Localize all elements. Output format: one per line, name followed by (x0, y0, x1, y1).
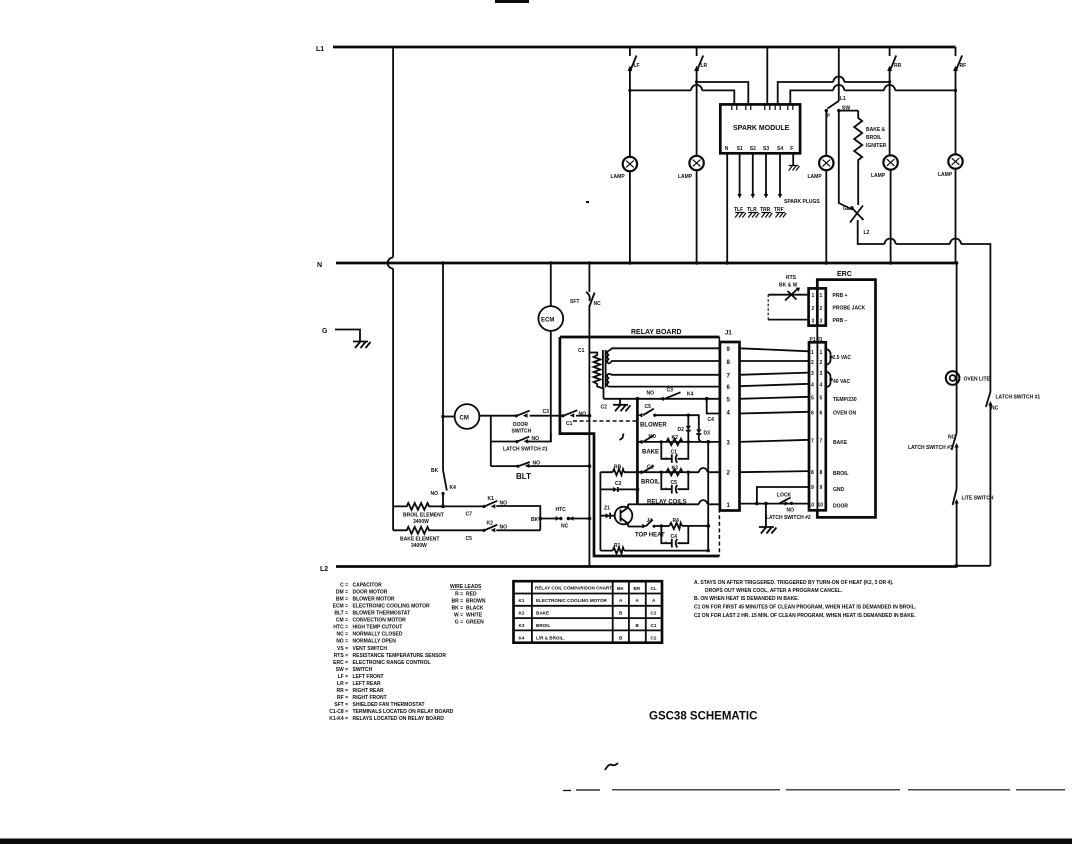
svg-text:N: N (317, 262, 322, 269)
svg-text:C4: C4 (708, 417, 715, 423)
switch RR (887, 47, 901, 156)
svg-text:3: 3 (812, 319, 815, 325)
svg-text:RIGHT FRONT: RIGHT FRONT (353, 695, 387, 701)
switch K4 contact (top heat) (635, 518, 665, 539)
wire relay bus vertical (636, 399, 639, 505)
scan speck near module (586, 201, 589, 203)
svg-text:HTC =: HTC = (333, 625, 348, 631)
wire ECM drop from N (550, 263, 552, 306)
svg-text:+: + (665, 541, 668, 547)
wire HTC line (531, 517, 557, 523)
svg-text:RF =: RF = (337, 695, 348, 701)
svg-text:BR: BR (634, 586, 641, 591)
igniter label (866, 127, 887, 149)
lamp RR (883, 155, 897, 169)
svg-text:2: 2 (812, 306, 815, 312)
svg-text:5: 5 (811, 396, 814, 402)
sensor RTS (779, 275, 800, 301)
svg-text:C1: C1 (566, 421, 573, 427)
ground spark plug TRR (762, 213, 773, 218)
spark module bottom pin labels (725, 146, 794, 152)
svg-text:RR =: RR = (336, 688, 348, 694)
wire spark output S1 (739, 153, 741, 194)
wire P lamp to N (825, 170, 827, 262)
svg-text:BK: BK (431, 468, 439, 474)
wire blower contact to diodes (655, 415, 699, 429)
svg-text:TERMINALS LOCATED ON RELAY BOA: TERMINALS LOCATED ON RELAY BOARD (353, 709, 454, 715)
svg-text:LATCH SWITCH #3: LATCH SWITCH #3 (908, 445, 953, 451)
switch lock (latch #2) (766, 493, 811, 522)
svg-text:L/R & BROIL.: L/R & BROIL. (536, 636, 565, 641)
svg-text:K4: K4 (519, 636, 525, 641)
svg-text:BK: BK (531, 517, 539, 523)
svg-text:C4: C4 (671, 534, 678, 540)
connector J1 (720, 331, 740, 511)
svg-text:C5: C5 (466, 536, 473, 542)
wire broil to K1 contact (443, 505, 484, 507)
svg-text:1: 1 (811, 350, 814, 356)
wire collector to relay coils row (628, 503, 637, 505)
svg-text:BROIL ELEMENT: BROIL ELEMENT (403, 513, 444, 519)
svg-text:SFT =: SFT = (334, 702, 348, 708)
svg-text:BLACK: BLACK (466, 606, 484, 612)
svg-text:ELECTRONIC COOLING MOTOR: ELECTRONIC COOLING MOTOR (353, 604, 431, 610)
svg-text:S2: S2 (750, 146, 756, 152)
svg-text:C1-C8 =: C1-C8 = (329, 709, 348, 715)
svg-text:S1: S1 (737, 146, 743, 152)
svg-text:2.5 VAC: 2.5 VAC (833, 355, 852, 361)
ERC box (817, 271, 875, 517)
svg-text:BK & W: BK & W (779, 283, 798, 289)
scan artifact signature (605, 763, 618, 770)
svg-text:CAPACITOR: CAPACITOR (353, 583, 383, 589)
svg-text:C1: C1 (671, 450, 678, 456)
ground spark plug TRF (776, 213, 787, 218)
wire spark output S3 (765, 153, 767, 194)
svg-text:BAKE: BAKE (642, 450, 659, 456)
thermostat SFT (570, 292, 601, 307)
wire SW terminal down (839, 111, 852, 210)
svg-text:PROBE JACK: PROBE JACK (833, 306, 866, 312)
svg-text:BM =: BM = (336, 597, 348, 603)
capacitor C5 (broil) (660, 471, 690, 494)
relay contact K2 (bake) (482, 521, 507, 533)
relay board right border dashed (718, 337, 720, 556)
motor ECM (538, 306, 563, 331)
svg-text:BAKE ELEMENT: BAKE ELEMENT (400, 537, 439, 543)
relay contact blower (638, 404, 668, 429)
svg-text:LATCH SWITCH #1: LATCH SWITCH #1 (503, 447, 548, 453)
svg-text:LATCH SWITCH #1: LATCH SWITCH #1 (996, 395, 1041, 401)
svg-text:G: G (322, 328, 328, 335)
svg-text:9: 9 (811, 485, 814, 491)
svg-text:J1: J1 (725, 331, 732, 337)
svg-text:LAMP: LAMP (611, 174, 626, 180)
svg-text:LAMP: LAMP (871, 173, 886, 179)
svg-text:1: 1 (820, 293, 823, 299)
svg-text:K4: K4 (450, 485, 457, 491)
svg-text:40 VAC: 40 VAC (833, 379, 851, 385)
svg-text:A: A (652, 598, 656, 603)
svg-text:RIGHT REAR: RIGHT REAR (353, 688, 385, 694)
spark module top pin marks (732, 104, 793, 110)
svg-text:LITE SWITCH: LITE SWITCH (962, 496, 994, 502)
wire emitter row to TOP HEAT switch (628, 526, 644, 528)
capacitor C1 (bake) (660, 440, 690, 463)
resistor broil igniter (854, 111, 862, 205)
wire leads legend (450, 584, 486, 626)
svg-text:5: 5 (727, 398, 731, 404)
svg-text:NC: NC (991, 406, 999, 412)
svg-text:K1-K4 =: K1-K4 = (329, 716, 348, 722)
svg-text:B: B (619, 611, 623, 616)
svg-text:L1: L1 (840, 96, 846, 102)
svg-text:SWITCH: SWITCH (353, 667, 373, 673)
svg-text:6: 6 (727, 385, 731, 391)
svg-text:W =: W = (454, 613, 463, 619)
svg-text:BLT: BLT (516, 472, 531, 481)
wire contact to SFT wire (576, 415, 589, 417)
wire L1 direct to module pin3 (766, 47, 768, 104)
resistor R1 (613, 543, 625, 554)
lamp RF (948, 154, 962, 168)
connector P1/J1 (10 pin) (809, 337, 826, 510)
svg-text:CONVECTION MOTOR: CONVECTION MOTOR (353, 618, 407, 624)
wire harness rows (740, 348, 810, 472)
relay contact C on door line (561, 410, 586, 417)
svg-text:3: 3 (820, 371, 823, 377)
scan artifact top dash (495, 0, 529, 3)
relay contact K1 (broil) (482, 496, 507, 509)
svg-text:C =: C = (340, 583, 348, 589)
svg-text:BROIL: BROIL (536, 623, 550, 628)
svg-text:ERC: ERC (837, 271, 852, 278)
svg-text:A: A (619, 598, 623, 603)
svg-text:NO: NO (431, 491, 439, 497)
wire to R4 (654, 525, 669, 527)
wire module pinF to ground (792, 153, 794, 165)
svg-text:HIGH TEMP CUTOUT: HIGH TEMP CUTOUT (353, 625, 403, 631)
svg-text:NC: NC (561, 524, 569, 530)
resistor RB (613, 465, 625, 476)
relay contact K4 on top line (647, 388, 694, 402)
wire ECM down to latch line (550, 331, 552, 442)
ground on lock row (765, 504, 767, 527)
svg-text:C2: C2 (615, 481, 622, 487)
svg-text:VENT SWITCH: VENT SWITCH (353, 646, 388, 652)
svg-text:K2: K2 (487, 521, 494, 527)
svg-text:DOOR: DOOR (513, 422, 528, 428)
relay coil K3 (667, 466, 683, 476)
scan artifact thin line (563, 789, 1065, 792)
svg-text:DOOR: DOOR (833, 504, 848, 510)
svg-text:VS =: VS = (337, 646, 348, 652)
svg-text:LR =: LR = (337, 681, 348, 687)
svg-text:GREEN: GREEN (466, 620, 484, 626)
wire CM to door switch line (479, 415, 516, 417)
svg-text:BLOWER: BLOWER (640, 423, 667, 429)
svg-text:3: 3 (811, 371, 814, 377)
hop L2 over RF lamp wire (950, 239, 961, 245)
svg-text:RELAY BOARD: RELAY BOARD (631, 329, 682, 336)
svg-text:NO =: NO = (336, 639, 348, 645)
svg-text:K3: K3 (519, 623, 525, 628)
capacitor C4 (top heat) (661, 526, 688, 548)
svg-text:NO: NO (787, 508, 795, 514)
svg-text:G =: G = (455, 620, 463, 626)
junction dots on spark feed branches (628, 80, 957, 92)
wire SW to resistor top (839, 110, 858, 112)
ground spark plug TLR (748, 213, 759, 218)
svg-text:RF: RF (960, 63, 967, 69)
switch latch #3 (908, 433, 959, 489)
svg-text:2: 2 (811, 360, 814, 366)
svg-text:SWITCH: SWITCH (512, 429, 532, 435)
lamp LR (689, 156, 703, 170)
scan artifact bottom bar (0, 839, 1072, 845)
svg-text:RESISTANCE TEMPERATURE SENSOR: RESISTANCE TEMPERATURE SENSOR (353, 653, 447, 659)
svg-text:BLOWER MOTOR: BLOWER MOTOR (353, 597, 396, 603)
svg-text:Z1: Z1 (604, 506, 610, 512)
hop relay coils row (699, 500, 707, 504)
wire BLT to SFT wire (529, 465, 590, 467)
hop L2 over RR lamp wire (885, 239, 896, 245)
lamp oven lite (946, 371, 991, 385)
svg-text:RED: RED (466, 592, 477, 598)
wire bake to K2 contact (443, 529, 484, 531)
svg-text:ELECTRONIC RANGE CONTROL: ELECTRONIC RANGE CONTROL (353, 660, 431, 666)
wire spark output S4 (779, 153, 781, 194)
svg-text:C7: C7 (466, 512, 473, 518)
wire RR lamp to N (890, 170, 892, 262)
svg-text:A. STAYS ON AFTER TRIGGERED. T: A. STAYS ON AFTER TRIGGERED. TRIGGERED B… (694, 580, 894, 586)
svg-text:C1 ON FOR FIRST 45 MINUTES OF: C1 ON FOR FIRST 45 MINUTES OF CLEAN PROG… (694, 605, 917, 611)
svg-text:PRB −: PRB − (833, 318, 848, 324)
resistor bake element (393, 527, 443, 534)
svg-text:C2: C2 (601, 405, 608, 411)
svg-text:NORMALLY OPEN: NORMALLY OPEN (353, 639, 397, 645)
wire probe loop (768, 295, 808, 320)
switch RF (953, 47, 966, 155)
wire dashed C1 to relay board bus (573, 420, 637, 422)
svg-text:LF: LF (634, 63, 640, 69)
transformer T1 core (603, 350, 606, 388)
switch door (512, 411, 532, 435)
svg-text:C1: C1 (651, 623, 657, 628)
ground spark plug TLF (735, 213, 746, 218)
wire spark output S2 (752, 153, 754, 194)
svg-text:C1: C1 (578, 348, 585, 354)
switch latch #1 (503, 436, 548, 453)
svg-text:SHIELDED FAN THERMOSTAT: SHIELDED FAN THERMOSTAT (353, 702, 425, 708)
wire BLT line (491, 465, 518, 467)
svg-text:NC: NC (594, 301, 602, 307)
svg-text:SPARK PLUGS: SPARK PLUGS (784, 199, 820, 205)
svg-text:DROPS OUT WHEN COOL, AFTER A P: DROPS OUT WHEN COOL, AFTER A PROGRAM CAN… (705, 588, 843, 594)
diode D2 (678, 426, 691, 442)
wire latch line vertical from CM line (490, 416, 492, 466)
svg-text:WHITE: WHITE (466, 613, 483, 619)
svg-text:C3: C3 (667, 388, 674, 394)
svg-text:NO: NO (647, 391, 655, 397)
wire L1 top rail (333, 46, 956, 49)
svg-text:ERC =: ERC = (333, 660, 348, 666)
svg-text:GSC38 SCHEMATIC: GSC38 SCHEMATIC (649, 711, 757, 723)
wire LF lamp to N (629, 171, 631, 262)
wire gnd row to ERC pin9 (757, 487, 809, 504)
wire P terminal to lamp (825, 111, 827, 156)
svg-text:3400W: 3400W (411, 543, 427, 549)
svg-text:ECM: ECM (541, 318, 554, 324)
svg-text:4: 4 (820, 383, 823, 389)
probe labels (833, 293, 866, 324)
relay coil comparison table (514, 581, 663, 643)
svg-text:3: 3 (727, 441, 731, 447)
svg-text:BAKE &: BAKE & (866, 127, 886, 133)
relay coil K2 (667, 435, 683, 445)
svg-text:BROIL: BROIL (833, 471, 849, 477)
svg-text:6: 6 (811, 411, 814, 417)
svg-text:8: 8 (820, 470, 823, 476)
wire bake relay row (637, 441, 720, 443)
bracket 40VAC (826, 372, 832, 388)
svg-text:PRB +: PRB + (833, 293, 848, 299)
svg-text:K1: K1 (519, 598, 525, 603)
svg-text:K1: K1 (488, 496, 495, 502)
svg-text:BROIL: BROIL (641, 480, 660, 486)
wire latch line (491, 441, 517, 443)
svg-text:8: 8 (727, 360, 731, 366)
wire diode C2 row (600, 488, 637, 490)
svg-text:LR: LR (701, 63, 708, 69)
svg-text:S4: S4 (777, 146, 783, 152)
relay contact broil (638, 465, 660, 486)
wire module pinN to N rail (726, 153, 728, 262)
wire hop of left vertical over N rail (388, 258, 393, 269)
svg-text:SPARK MODULE: SPARK MODULE (733, 125, 790, 132)
wire SFT down left of relay board to L2 (588, 305, 590, 566)
zener on base (600, 506, 614, 519)
svg-text:CM: CM (460, 416, 469, 422)
svg-text:CM =: CM = (336, 618, 348, 624)
svg-text:1: 1 (812, 293, 815, 299)
svg-text:3: 3 (820, 319, 823, 325)
svg-text:DM =: DM = (336, 590, 348, 596)
wire igniter switch drop from L1 (838, 47, 840, 101)
svg-text:L1: L1 (316, 46, 324, 53)
wire N rail (336, 262, 957, 265)
wire broil relay row (600, 471, 720, 473)
svg-text:RTS =: RTS = (334, 653, 348, 659)
svg-text:LEFT FRONT: LEFT FRONT (353, 674, 384, 680)
connector probe (3 pin) (809, 288, 826, 325)
svg-text:K2: K2 (519, 611, 525, 616)
svg-text:K4: K4 (687, 392, 694, 398)
svg-text:IGNITER: IGNITER (866, 143, 887, 149)
hop broil row over vertical (699, 468, 707, 472)
svg-text:BK: BK (617, 586, 624, 591)
svg-text:2: 2 (820, 360, 823, 366)
resistor R4 (669, 518, 682, 529)
svg-text:L2: L2 (864, 230, 870, 236)
svg-text:C2: C2 (651, 611, 657, 616)
svg-text:L2: L2 (320, 566, 328, 573)
wire R1 bottom row (600, 550, 708, 552)
svg-text:WIRE LEADS: WIRE LEADS (450, 584, 482, 590)
svg-text:SFT: SFT (570, 299, 579, 305)
svg-text:+: + (665, 456, 668, 462)
svg-text:TEMP/230: TEMP/230 (833, 397, 857, 403)
wire bake/broil feed vertical C(x=443) (442, 263, 444, 470)
wire SFT drop from N (588, 263, 590, 292)
svg-text:B: B (619, 636, 623, 641)
svg-text:BLOWER THERMOSTAT: BLOWER THERMOSTAT (353, 611, 411, 617)
svg-text:C3: C3 (543, 409, 550, 415)
node G chassis ground (322, 328, 360, 342)
svg-text:OVEN LITE: OVEN LITE (964, 377, 991, 383)
switch K4 vent on 443 (431, 468, 457, 506)
svg-text:LAMP: LAMP (808, 174, 823, 180)
svg-text:9: 9 (820, 485, 823, 491)
svg-text:BAKE: BAKE (833, 440, 848, 446)
svg-text:10: 10 (818, 503, 824, 509)
thermostat BLT (516, 461, 540, 482)
svg-text:BROWN: BROWN (466, 599, 486, 605)
svg-text:S3: S3 (763, 146, 769, 152)
wire vertical x=708 (707, 442, 709, 551)
svg-text:7: 7 (820, 439, 823, 445)
wire relay top line (C-line) (604, 398, 720, 400)
spark module box U1 (720, 104, 800, 153)
svg-text:RELAY COIL COMPARISON CHART: RELAY COIL COMPARISON CHART (535, 586, 612, 591)
svg-text:BLT =: BLT = (334, 611, 348, 617)
switch lite (953, 489, 994, 566)
wire L2 rail (336, 565, 957, 568)
wire door switch to relay contact (530, 415, 563, 417)
wire spark feed LF to module pin1 (y=90.4) with hop over LR (630, 90, 734, 104)
svg-text:BAKE: BAKE (536, 611, 549, 616)
switch LF (628, 47, 640, 157)
svg-text:4: 4 (811, 383, 814, 389)
svg-text:HTC: HTC (556, 507, 567, 513)
junction dots on N rail (441, 261, 958, 265)
relay contact bake (638, 434, 659, 456)
svg-text:3400W: 3400W (413, 519, 429, 525)
ground module pinF (789, 166, 800, 171)
svg-text:ECM =: ECM = (333, 604, 349, 610)
svg-text:C2 ON FOR LAST 2 HR. 15 MIN. O: C2 ON FOR LAST 2 HR. 15 MIN. OF CLEAN PR… (694, 613, 916, 619)
diode C2 (613, 481, 624, 492)
transistor Q1 (615, 504, 633, 526)
diode D3 (696, 429, 710, 442)
switch LR (694, 47, 707, 156)
svg-text:9: 9 (727, 347, 731, 353)
svg-text:4: 4 (727, 411, 731, 417)
transformer T1 secondary (607, 351, 609, 364)
wire oven lite drop (from N junction) (956, 263, 958, 433)
svg-text:DOOR MOTOR: DOOR MOTOR (353, 590, 388, 596)
svg-text:LATCH SWITCH #2: LATCH SWITCH #2 (766, 515, 811, 521)
svg-text:C5: C5 (671, 480, 678, 486)
wire spark feed LR to module pin2 (y=82) (697, 82, 749, 104)
wire module pin4 to RR (y=82) with hop at igniter switch (778, 82, 890, 104)
wire secondary taps to J1 pins 9..6 (609, 348, 720, 386)
ERC pin labels (833, 355, 857, 510)
wire left loop vertical (599, 472, 601, 550)
svg-text:SW =: SW = (336, 667, 348, 673)
svg-text:B. ON WHEN HEAT IS DEMANDED IN: B. ON WHEN HEAT IS DEMANDED IN BAKE. (694, 596, 800, 602)
svg-text:B: B (636, 623, 640, 628)
